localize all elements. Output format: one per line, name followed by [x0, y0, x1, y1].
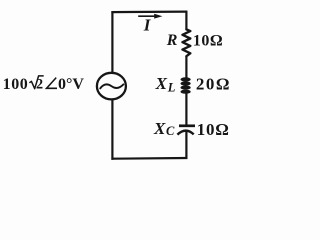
inductor XL coil loop 2: [181, 82, 191, 86]
angle symbol: [47, 78, 58, 89]
inductor XL coil loop 4: [181, 90, 191, 94]
wire right between inductor and capacitor: [185, 92, 187, 126]
wire bottom horizontal: [111, 157, 187, 160]
svg-text:0°V: 0°V: [58, 76, 84, 93]
AC source sine tilde: [100, 84, 123, 88]
current arrow shaft: [138, 15, 156, 17]
svg-text:X: X: [155, 74, 168, 93]
svg-text:2: 2: [36, 76, 43, 92]
inductor XL coil loop 1: [181, 78, 191, 82]
current arrow head: [154, 14, 162, 19]
AC source V1 circle: [97, 73, 126, 100]
svg-text:R: R: [166, 32, 178, 49]
wire top horizontal: [111, 11, 187, 14]
capacitor XC top flat plate: [179, 124, 195, 127]
wire right upper (top corner to resistor): [185, 11, 187, 29]
svg-text:20Ω: 20Ω: [196, 74, 231, 93]
wire left upper (source top lead): [111, 11, 113, 73]
wire left lower (source bottom lead): [111, 100, 113, 160]
svg-text:100: 100: [3, 76, 29, 93]
capacitor XC curved bottom plate: [177, 131, 193, 135]
svg-text:L: L: [167, 80, 176, 94]
wire right lower (capacitor to bottom corner): [185, 132, 187, 160]
svg-text:10Ω: 10Ω: [193, 33, 223, 50]
label source voltage: radical sign with overbar: [29, 76, 43, 89]
svg-text:10Ω: 10Ω: [197, 120, 230, 139]
svg-text:C: C: [166, 124, 175, 138]
resistor R zigzag: [183, 29, 191, 56]
svg-text:X: X: [153, 119, 166, 138]
inductor XL coil loop 3: [181, 86, 191, 90]
wire right between resistor and inductor: [185, 56, 187, 78]
